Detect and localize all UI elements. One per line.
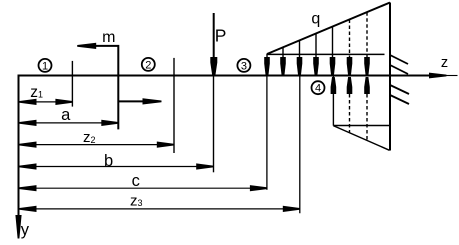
load arrow 1 (264, 54, 270, 75)
tick below load start for c (266, 77, 268, 190)
svg-text:z: z (441, 55, 448, 71)
svg-text:3: 3 (241, 60, 247, 72)
z axis arrowhead (429, 73, 447, 79)
svg-text:P: P (215, 25, 227, 45)
node 4 circle (312, 81, 325, 95)
svg-text:z1: z1 (30, 84, 43, 101)
node 3 circle (237, 59, 250, 73)
moment m couple: vertical link and top arrow shaft (95, 46, 118, 129)
tick for z3 (299, 77, 301, 214)
load level line (267, 53, 385, 55)
moment m top arrowhead (left) (77, 43, 96, 49)
lower load dashed line 1 with up arrow (347, 77, 353, 133)
svg-text:m: m (102, 29, 115, 46)
wall hatch 2 (390, 65, 408, 74)
svg-text:q: q (311, 11, 320, 28)
node 2 circle (142, 58, 155, 72)
lower fictitious load: left edge with up arrow (331, 77, 337, 126)
wall hatch 4 (390, 95, 409, 104)
wall line (389, 3, 391, 151)
load arrow 2 (280, 47, 286, 74)
dimension a line (20, 120, 119, 126)
beam axis (z axis) (18, 75, 444, 77)
moment m bottom arrow shaft (118, 100, 144, 102)
dimension z1 line (20, 99, 73, 105)
lower load dashed line 2 with up arrow (364, 77, 370, 141)
load arrow 5 (330, 27, 336, 75)
lower triangle hypotenuse (333, 126, 389, 151)
svg-text:2: 2 (145, 59, 151, 71)
tick for z1 (71, 61, 73, 107)
svg-text:a: a (61, 106, 71, 124)
load arrow 3 (297, 40, 303, 74)
svg-text:y: y (21, 221, 30, 239)
load arrow 4 (313, 34, 319, 75)
tick below P for b (213, 77, 215, 173)
dimension z3 line (20, 206, 300, 212)
dimension b line (20, 163, 214, 169)
force P line (213, 13, 215, 60)
force P arrowhead (210, 57, 217, 75)
svg-text:z3: z3 (130, 192, 143, 209)
dimension z2 line (20, 142, 174, 148)
y axis arrowhead (15, 215, 21, 239)
moment m bottom arrowhead (right) (143, 98, 162, 104)
z axis tail line (445, 75, 458, 77)
load arrow 6 dashed (347, 20, 353, 75)
node 1 circle (39, 59, 52, 73)
lower triangle top edge (333, 125, 389, 127)
dimension c line (20, 185, 267, 191)
svg-text:1: 1 (42, 60, 48, 72)
load arrow 7 dashed (364, 12, 370, 74)
tick for z2 (173, 58, 175, 153)
svg-text:4: 4 (315, 83, 321, 95)
wall hatch 1 (390, 55, 408, 64)
distributed load q top slant line (267, 3, 390, 55)
svg-text:z2: z2 (83, 129, 96, 146)
y axis line (18, 75, 20, 217)
svg-text:b: b (104, 152, 113, 170)
svg-text:c: c (132, 172, 140, 190)
wall hatch 3 (390, 85, 409, 94)
